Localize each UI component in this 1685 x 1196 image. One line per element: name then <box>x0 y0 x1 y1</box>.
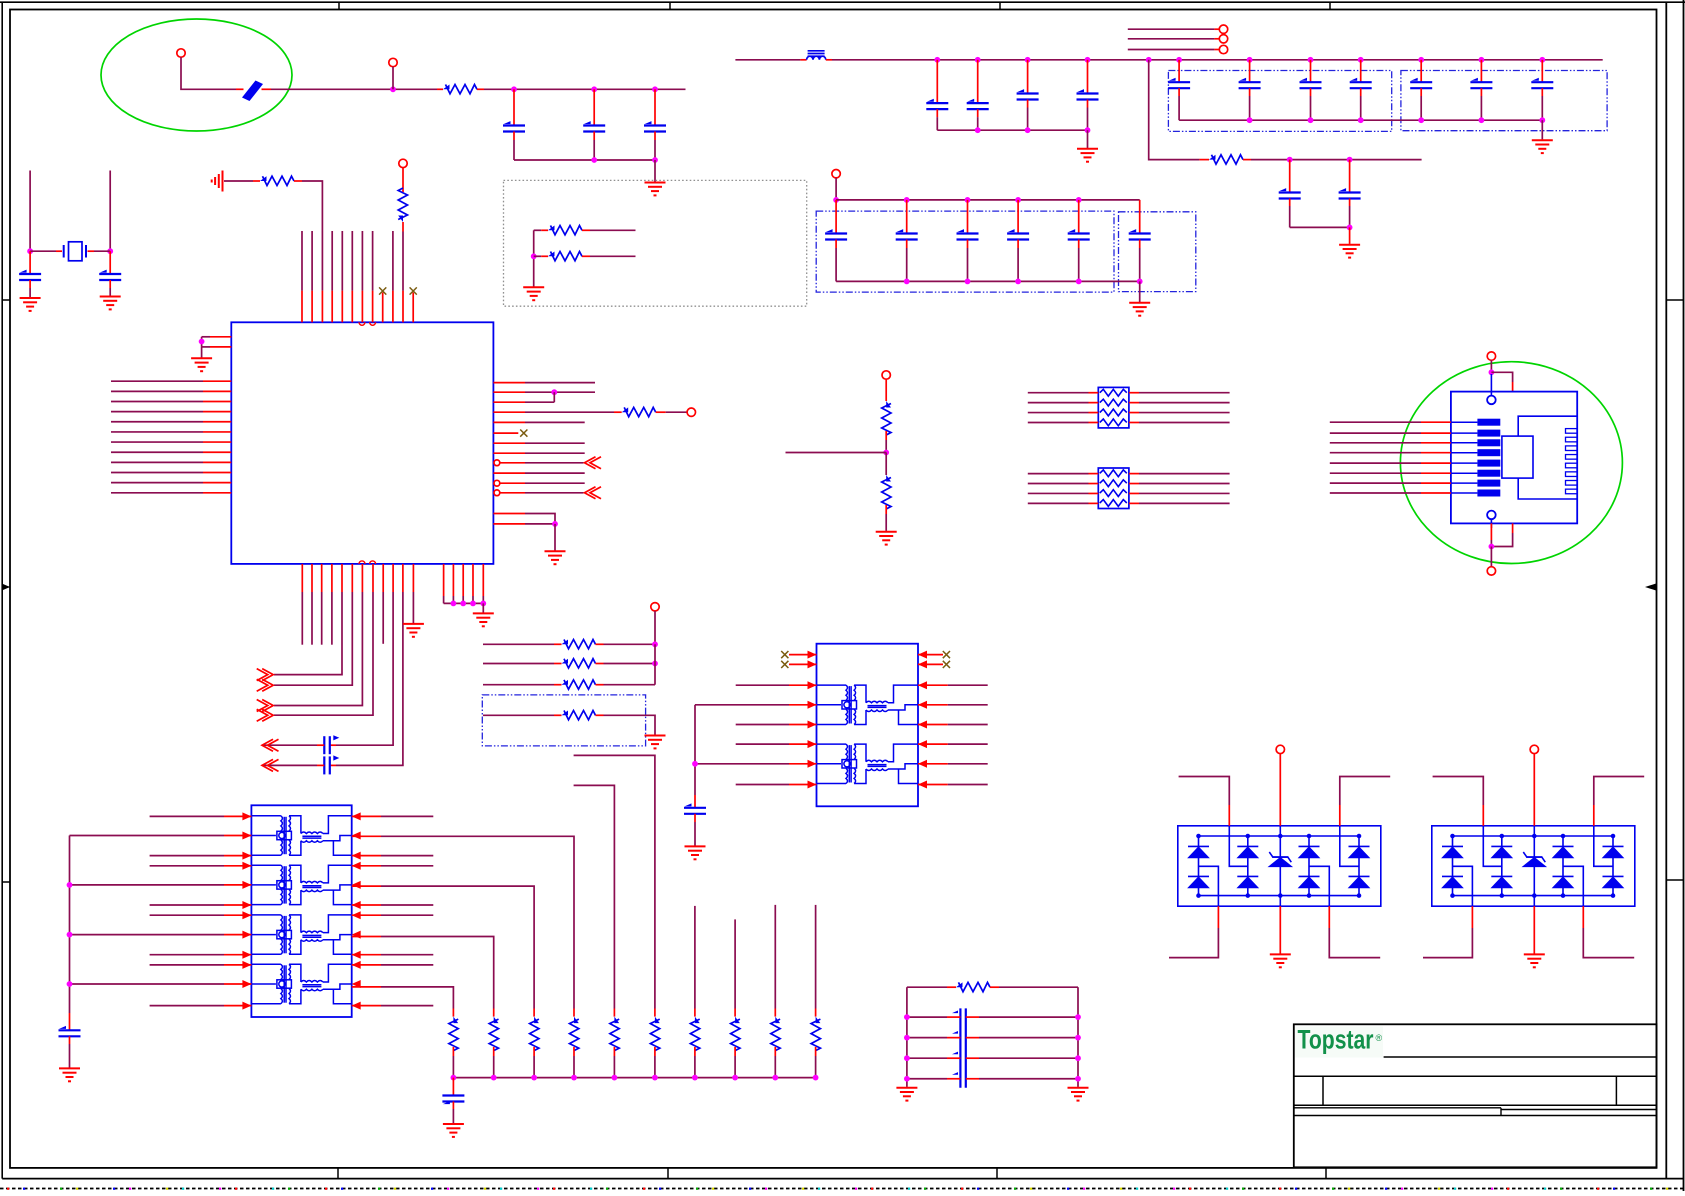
T2 right ct wire y=886.1 <box>381 886 534 1008</box>
junction dot grp1 rail a <box>975 127 981 133</box>
T2 left wire y=855.6 <box>150 855 224 857</box>
RJ45 right shield box <box>1518 416 1577 499</box>
wire C11 to ground <box>69 1044 71 1068</box>
main power rail <box>832 59 1603 61</box>
IC bottom pin wire to cap C7 <box>336 592 403 765</box>
capacitor C12 <box>442 1094 464 1096</box>
IC top pin 1 stub <box>301 291 303 323</box>
wire R7 to caps <box>1251 159 1422 161</box>
T1 left pin arrow y=664.4 <box>808 660 817 668</box>
wire C12 to ground <box>452 1109 454 1123</box>
capacitor bank2 Cx at 967.5 <box>957 232 979 234</box>
IC bottom pin wire to chevron row3 <box>274 592 362 706</box>
T2 channel 4 windings <box>251 964 351 1003</box>
T1 left stub y=685.2 <box>789 684 817 686</box>
cap array row 4 red l <box>947 1078 960 1080</box>
red stub R11 r <box>596 714 604 716</box>
junction dot bank rail x=453.4 <box>451 1075 457 1081</box>
junction dot cap array l1 <box>904 1014 910 1020</box>
IC top pin 5 wire <box>341 231 343 291</box>
T1 right pin arrow y=763.8 <box>918 760 927 768</box>
pin Pt y=49.5 <box>1219 45 1227 53</box>
cap array row 1 red r <box>966 1016 979 1018</box>
resistor R10 <box>562 680 569 685</box>
IC right pin 11 bubble <box>494 480 500 486</box>
red stub fuse left <box>236 88 244 90</box>
RN1 right stub 4 <box>1129 421 1139 423</box>
top hook right diode array U2 <box>1340 777 1390 806</box>
bank resistor R22 <box>771 1017 780 1051</box>
ground G5 <box>473 613 494 626</box>
X mark T1 right 2 <box>943 661 950 668</box>
red stub pin y=38.8 <box>1214 38 1219 40</box>
red stem C8 top <box>1289 160 1291 193</box>
no-connect X on IC top pin 12 <box>410 287 417 294</box>
ground G1 <box>645 183 666 196</box>
junction dot grp1 rail b <box>1025 127 1031 133</box>
hook wire col5 <box>574 785 615 1008</box>
diode pair 2 in diode array U3 <box>1491 835 1512 898</box>
T2 right pin arrow y=905 <box>352 901 361 909</box>
junction dot C9 rail <box>1347 225 1353 231</box>
bank R3 top stub <box>533 1009 535 1017</box>
IC top pin 12 (no-connect) <box>412 293 414 323</box>
red stub C6 left <box>317 744 324 746</box>
T1 left pin arrow y=784.5 <box>808 781 817 789</box>
IC left pin 7 stub <box>203 441 231 443</box>
junction dot rail x=1087.5 <box>1085 57 1091 63</box>
T2 right ct stub y=936.5 <box>352 936 381 938</box>
cap array row 3 right <box>979 1057 1078 1059</box>
red stub R7 right <box>1243 159 1251 161</box>
title block thin row divider <box>1500 1108 1502 1116</box>
transformer module T2 body <box>251 805 351 1017</box>
T2 right stub y=915.2 <box>352 914 381 916</box>
capacitor bank Cx at 1360.7 <box>1350 81 1372 83</box>
IC right pin 14 wire <box>525 523 555 525</box>
T2 right pin arrow y=915.2 <box>352 911 361 919</box>
T1 right pin arrow y=724.5 <box>918 721 927 729</box>
P8 stem <box>1490 547 1492 567</box>
T1 left pin arrow y=704.8 <box>808 701 817 709</box>
T2 left pin arrow y=855.6 <box>242 852 251 860</box>
wire C8 to rail <box>1289 206 1291 227</box>
RJ45 top mounting circle <box>1487 396 1496 405</box>
red stem bank cap top x=1481.4 <box>1480 60 1482 82</box>
bank R2 to rail <box>493 1056 495 1078</box>
red stem C8 bottom <box>1289 199 1291 207</box>
IC left pin 8 wire <box>111 451 203 453</box>
red stem cap top x=1027.6 <box>1027 60 1029 94</box>
blue dash-dot box cap bank 2 <box>1401 71 1607 131</box>
IC top pin 7 stub <box>361 291 363 323</box>
step connector 2 diode array U2 <box>1229 826 1248 867</box>
chevron in arrow cap row1 <box>262 739 279 751</box>
junction dot bank2 rail x=1018.1 <box>1015 197 1021 203</box>
IC right pin 11 stub <box>500 482 525 484</box>
bank2 top rail <box>836 199 1140 201</box>
T1 channel 1 windings <box>817 685 919 724</box>
bank resistor R15 <box>489 1017 498 1051</box>
junction dot bus x=463.2 <box>460 601 466 607</box>
bank R4 to rail <box>573 1056 575 1078</box>
RN2 right stub 2 <box>1129 483 1139 485</box>
wire C2 to rail <box>593 140 595 160</box>
wire joining ground pins <box>202 336 210 338</box>
red stub R12 bottom <box>885 431 887 440</box>
bank R5 top stub <box>613 1009 615 1017</box>
chevron in arrow cap row2 <box>262 759 279 771</box>
IC right pin 10 wire <box>525 472 585 474</box>
red stem C9 bottom <box>1349 199 1351 207</box>
top border zone tick x=670 <box>669 2 671 9</box>
red stub 3res row1 l <box>554 643 562 645</box>
bank R6 to rail <box>654 1056 656 1078</box>
T2 channel 1 windings <box>251 816 351 855</box>
junction dot divider <box>883 450 889 456</box>
resistor R2 <box>260 176 267 181</box>
cap array row 4 left <box>907 1078 947 1080</box>
wire rail to ground <box>654 160 656 182</box>
red stem bank cap top x=1310.5 <box>1310 60 1312 82</box>
red stem C2 bottom <box>593 132 595 141</box>
IC left pin 4 wire <box>111 411 203 413</box>
IC left pin 11 stub <box>203 482 231 484</box>
RN2 right stub 4 <box>1129 502 1139 504</box>
RN2 right stub 1 <box>1129 473 1139 475</box>
red stem bank cap top x=1360.7 <box>1360 60 1362 82</box>
IC top pin 6 wire <box>351 231 353 291</box>
T1 right wire y=704.8 <box>948 704 988 706</box>
diode pair 3 in diode array U3 <box>1553 835 1574 898</box>
red stem bank2 cap top x=836.1 <box>835 200 837 234</box>
bottom hook right diode array U3 <box>1583 928 1634 958</box>
wire C9 to rail <box>1349 206 1351 227</box>
RJ45 top jog wire <box>1491 372 1512 382</box>
junction dot rail x=1179.1 <box>1176 57 1182 63</box>
vertical joining ground pins <box>201 337 203 347</box>
junction dot bank rail x=1421.2 <box>1418 117 1424 123</box>
cap array left vertical <box>906 987 908 1087</box>
no-connect X on IC top pin 9 <box>379 287 386 294</box>
junction dot bank2 bottom x=1078.7 <box>1076 279 1082 285</box>
left border zone tick y=882 <box>2 881 10 883</box>
IC bottom pin wire x=383.2 <box>382 592 384 644</box>
IC left pin 5 wire <box>111 421 203 423</box>
IC right pin 3 stub <box>493 401 525 403</box>
ground G6 <box>191 358 212 371</box>
RN1 right wire 2 <box>1139 402 1230 404</box>
red stem bank cap bottom x=1542.3 <box>1541 88 1543 96</box>
T1 left wire y=724.5 <box>736 724 789 726</box>
T2 right pin arrow y=865.8 <box>352 862 361 870</box>
T1 left wire y=685.2 <box>736 684 789 686</box>
capacitor C4 <box>19 273 41 275</box>
red stem C12 top <box>452 1078 454 1096</box>
IC right pin 7 wire <box>525 442 585 444</box>
junction dot bank2 bottom x=1018.1 <box>1015 279 1021 285</box>
RJ45 bottom stem wire <box>1490 540 1492 547</box>
stem to ground G6 <box>201 347 203 358</box>
red stem C1 bottom <box>513 132 515 141</box>
IC top pin 1 wire <box>301 231 303 291</box>
pin P9 <box>832 170 840 178</box>
bank rail to ground stem <box>1541 120 1543 139</box>
T2 ct common vertical <box>69 836 71 1014</box>
T2 ct stub y=884.9 <box>224 884 251 886</box>
RN1 left stub 2 <box>1089 402 1099 404</box>
wire to ground G7 <box>554 524 556 551</box>
red stem bank2 cap top x=1018.1 <box>1017 200 1019 234</box>
step connector 3 diode array U3 <box>1563 866 1583 906</box>
IC left pin 5 stub <box>203 421 231 423</box>
ground G12 <box>645 736 666 749</box>
wire R2 to IC pin column <box>302 181 322 291</box>
bank R10 bottom stub <box>815 1047 817 1056</box>
IC left ground pin stub B <box>210 346 231 348</box>
RJ45 red stub 6 <box>1421 472 1451 474</box>
chevron out arrow row3 <box>257 700 274 712</box>
T2 right stub y=1005.6 <box>352 1005 381 1007</box>
hook wire col6 <box>574 755 655 1008</box>
P9 stem <box>835 178 837 200</box>
junction dot cap array r2 <box>1075 1035 1081 1041</box>
wire 3res row1 right <box>604 643 656 645</box>
cap array row 3 red r <box>966 1057 979 1059</box>
red stub R24 right <box>990 986 999 988</box>
P5 stem <box>654 611 656 644</box>
red stem bank cap top x=1249.6 <box>1249 60 1251 82</box>
junction dot C8 top <box>1287 157 1293 163</box>
RJ45 pin pad 8 <box>1451 492 1478 494</box>
capacitor C1 <box>503 124 525 126</box>
title block row line 2 <box>1294 1104 1657 1106</box>
capacitor bank2 Cx at 836.1 <box>825 232 847 234</box>
resistor R7 <box>1209 155 1216 160</box>
T2 left wire y=964.9 <box>150 964 224 966</box>
junction dot cap array r1 <box>1075 1014 1081 1020</box>
RJ45 top stem blue <box>1490 374 1492 396</box>
wire bank cap to rail x=1310.5 <box>1310 96 1312 120</box>
wire cap to rail x=937.3 <box>936 117 938 130</box>
T2 left wire y=954.7 <box>150 954 224 956</box>
T2 left stub y=816.4 <box>224 815 251 817</box>
IC top pin 9 (no-connect) <box>382 293 384 323</box>
capacitor bank Cx at 1421.2 <box>1410 81 1432 83</box>
bank R4 bottom stub <box>573 1047 575 1056</box>
pin P2 <box>389 58 397 66</box>
bank R4 top stub <box>573 1009 575 1017</box>
bottom hook left diode array U3 <box>1423 928 1472 958</box>
red stem bank2 cap top x=967.5 <box>967 200 969 234</box>
IC bottom pin 12 stub <box>412 564 414 592</box>
bank R8 top stub <box>734 1009 736 1017</box>
red stem C2 top <box>593 89 595 125</box>
wire bank2 cap to rail x=906.7 <box>906 248 908 281</box>
red stem P3 <box>402 168 404 192</box>
T1 right wire y=744.1 <box>948 743 988 745</box>
red stem bank2 cap bottom x=836.1 <box>835 240 837 249</box>
resistor R3 (vertical) <box>398 188 407 222</box>
left edge centre arrow <box>3 584 10 590</box>
junction dot bank rail x=1310.5 <box>1308 117 1314 123</box>
red stem C10 bottom <box>694 814 696 822</box>
IC bottom pin wire x=331.9 <box>331 592 333 645</box>
junction dot 3res row1 <box>652 641 658 647</box>
red stem cap bottom x=1027.6 <box>1027 100 1029 108</box>
IC top pin 3 stub <box>321 291 323 323</box>
title block vertical divider left <box>1322 1076 1324 1105</box>
IC right pin 12 stub <box>500 492 525 494</box>
ground of diode array U3 <box>1524 954 1545 967</box>
X mark T1 left 1 <box>781 651 788 658</box>
red stem cap bottom x=977.7 <box>977 109 979 117</box>
RJ45 pin pad 6 <box>1451 472 1478 474</box>
T1 right pin arrow y=784.5 <box>918 781 927 789</box>
wire R11 left <box>483 714 554 716</box>
capacitor C11 <box>59 1029 81 1031</box>
T2 left stub y=915.2 <box>224 914 251 916</box>
ground G2 <box>20 298 41 311</box>
T2 right wire y=816.4 <box>381 815 433 817</box>
T1 left wire y=744.1 <box>736 743 789 745</box>
red stub R11 l <box>554 714 562 716</box>
red stem bank2 cap top x=906.7 <box>906 200 908 234</box>
red stem C12 bottom <box>452 1102 454 1110</box>
junction dot RJ45 top <box>1489 369 1495 375</box>
junction dot rail x=977.7 <box>975 57 981 63</box>
red stem C4 top <box>29 251 31 274</box>
red stem bank cap bottom x=1249.6 <box>1249 88 1251 96</box>
RJ45 top jog red <box>1512 382 1514 392</box>
RJ45 contact comb <box>1566 429 1578 434</box>
RN1 right wire 3 <box>1139 412 1230 414</box>
T2 left pin arrow y=884.9 <box>242 881 251 889</box>
red stub R2 left <box>253 180 260 182</box>
junction dot rail x=1027.6 <box>1025 57 1031 63</box>
title block outline <box>1294 1024 1657 1167</box>
IC top pin 2 stub <box>311 291 313 323</box>
RJ45 signal wire 8 <box>1330 492 1421 494</box>
right edge centre arrow <box>1645 584 1656 591</box>
IC right pin 14 stub <box>493 523 525 525</box>
IC right pin 4 stub <box>493 411 525 413</box>
junction dot rail x=1310.5 <box>1308 57 1314 63</box>
T1 right nc wire 1 <box>918 654 943 656</box>
red stub C7 left <box>317 764 324 766</box>
junction dot T2 ct b <box>67 932 73 938</box>
junction dot right pin 14 <box>552 521 558 527</box>
T1 left wire y=784.5 <box>736 784 789 786</box>
centre bottom pin diode array U3 <box>1533 906 1535 953</box>
top border zone tick x=1330 <box>1329 2 1331 9</box>
IC bottom pin 6 stub <box>351 564 353 592</box>
red stub R13 bottom <box>885 505 887 514</box>
red stem bank cap bottom x=1360.7 <box>1360 88 1362 96</box>
T2 left pin arrow y=835.5 <box>242 832 251 840</box>
Topstar logo <box>1295 1027 1383 1058</box>
wire 3res row2 left <box>483 663 554 665</box>
T2 right pin arrow y=884.9 <box>352 881 361 889</box>
capacitor bank2 Cx at 1078.7 <box>1068 232 1090 234</box>
red stem C11 bottom <box>69 1036 71 1044</box>
junction dot rail x=1249.6 <box>1247 57 1253 63</box>
ground G9 <box>1077 149 1098 162</box>
wire 3res row3 right <box>604 684 656 686</box>
bottom pin stub left diode array U3 <box>1471 906 1473 928</box>
junction dot bank rail x=1542.3 <box>1539 117 1545 123</box>
T2 ct wire y=934.6 <box>70 934 225 936</box>
RN1 left stub 4 <box>1089 421 1099 423</box>
bank R1 top stub <box>452 1009 454 1017</box>
red stem bank cap bottom x=1421.2 <box>1420 88 1422 96</box>
step connector 3 diode array U2 <box>1309 866 1329 906</box>
T1 right wire y=763.8 <box>948 763 988 765</box>
junction dot grp1 rail c <box>1085 127 1091 133</box>
wire bank cap to rail x=1421.2 <box>1420 96 1422 120</box>
red stub R4 left <box>614 411 622 413</box>
junction dot ground pins <box>199 339 205 345</box>
zener diode in diode array U2 <box>1269 826 1291 906</box>
bottom pin stub right diode array U2 <box>1328 906 1330 928</box>
bottom hook left diode array U2 <box>1169 928 1218 958</box>
IC left pin 7 wire <box>111 441 203 443</box>
vertical wire in dotted box <box>533 230 535 286</box>
T2 right wire y=964.9 <box>381 964 433 966</box>
green highlight ellipse around fuse <box>101 19 292 131</box>
IC bottom pin 2 stub <box>311 564 313 592</box>
resistor R24 <box>956 982 963 987</box>
wire C7 to chevron <box>263 764 317 766</box>
transformer module T1 body <box>817 644 919 807</box>
red stem bank cap bottom x=1310.5 <box>1310 88 1312 96</box>
IC top pin 4 stub <box>331 291 333 323</box>
bank resistor R19 <box>650 1017 659 1051</box>
wire 3res row2 right <box>604 663 656 665</box>
cap array row 3 left <box>907 1057 947 1059</box>
IC left pin 6 stub <box>203 431 231 433</box>
sheet outer border left line <box>1 2 3 1178</box>
capacitor bank Cx at 1542.3 <box>1531 81 1553 83</box>
T2 right ct wire y=936.5 <box>381 937 494 1009</box>
wire cap to rail x=1087.5 <box>1087 108 1089 131</box>
junction dot bank rail x=1249.6 <box>1247 117 1253 123</box>
IC left pin 8 stub <box>203 451 231 453</box>
title block thin row left segment <box>1294 1107 1501 1109</box>
T1 right stub y=744.1 <box>918 743 948 745</box>
red stub R2 right <box>294 180 302 182</box>
wire C6 to chevron <box>263 744 317 746</box>
bank R9 to rail <box>774 1056 776 1078</box>
RN1 left wire 3 <box>1028 412 1089 414</box>
wire P2 stem <box>392 67 394 90</box>
T2 ct stub y=984 <box>224 983 251 985</box>
top hook left diode array U2 <box>1179 777 1230 806</box>
IC top edge notch 2 <box>370 322 376 325</box>
ground of diode array U2 <box>1270 954 1291 967</box>
T2 right stub y=964.9 <box>352 964 381 966</box>
red stem C4 bottom <box>29 280 31 288</box>
RN2 left wire 4 <box>1028 502 1089 504</box>
IC bottom-right pin 5 wire <box>482 596 484 603</box>
T2 left stub y=865.8 <box>224 865 251 867</box>
T2 right ct stub y=836.3 <box>352 835 381 837</box>
bank R5 to rail <box>613 1056 615 1078</box>
RJ45 signal wire 7 <box>1330 482 1421 484</box>
RJ45 pin pad 7 <box>1451 482 1478 484</box>
junction dot T1 ct <box>692 761 698 767</box>
sheet outer border top line <box>0 1 1685 3</box>
